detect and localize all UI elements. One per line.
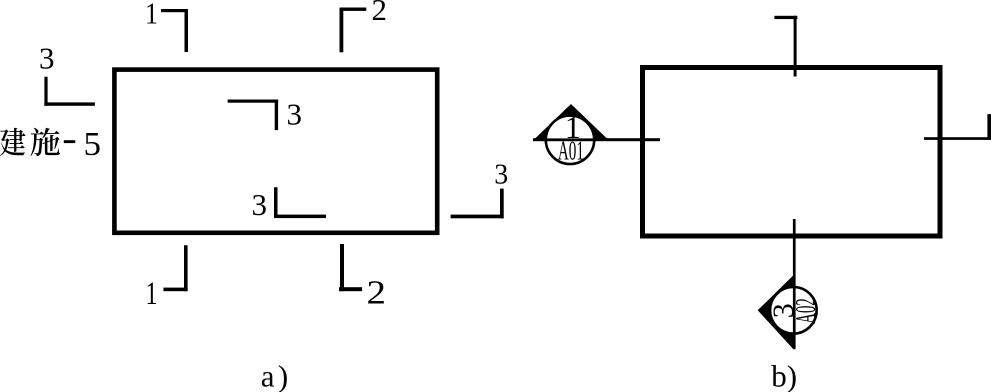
svg-text:1: 1 xyxy=(146,276,158,312)
section mark 3 right: vertical tick xyxy=(500,189,504,219)
top section line b: horizontal tick xyxy=(774,16,797,19)
minus sign of 建施-5 xyxy=(64,140,76,143)
inner detail mark 3 lower: horizontal tick xyxy=(274,215,326,219)
bottom section line (through A02 symbol) xyxy=(793,219,796,276)
svg-text:1: 1 xyxy=(145,0,158,31)
drawing title text 建 xyxy=(0,128,26,156)
section mark 2 bottom: vertical cut line xyxy=(340,244,344,291)
section mark 1 top: horizontal tick xyxy=(161,9,188,12)
section mark 2 top: horizontal tick xyxy=(340,8,367,11)
svg-text:b): b) xyxy=(771,359,797,392)
section symbol A02: direction triangle xyxy=(758,275,794,349)
section symbol A01: index circle xyxy=(546,116,594,164)
inner detail mark 3 upper: horizontal tick xyxy=(228,100,279,103)
section mark 3 left: horizontal cut line xyxy=(44,102,95,105)
section mark 1 bottom: vertical cut line xyxy=(184,245,188,291)
building outline rectangle (plan b) xyxy=(643,68,941,237)
section mark 1 top: vertical cut line xyxy=(185,9,189,52)
inner detail mark 3 lower: vertical line xyxy=(274,187,278,218)
inner detail mark 3 upper: vertical line xyxy=(275,100,278,131)
left section line (through A01 symbol) xyxy=(533,138,660,141)
section mark 2 bottom: horizontal tick xyxy=(339,287,362,291)
svg-text:A02: A02 xyxy=(790,298,822,324)
svg-text:3: 3 xyxy=(252,187,268,222)
right section line: end tick xyxy=(987,114,991,140)
section symbol A01: direction triangle xyxy=(534,104,609,140)
svg-text:3: 3 xyxy=(287,97,303,132)
building outline rectangle (plan a) xyxy=(114,70,437,233)
svg-text:2: 2 xyxy=(372,0,388,27)
svg-text:5: 5 xyxy=(84,126,102,163)
top section line b: vertical cut line xyxy=(794,16,797,77)
drawing title text 施 xyxy=(31,128,61,156)
svg-text:A01: A01 xyxy=(558,135,584,165)
section mark 3 left: vertical tick xyxy=(44,77,47,106)
svg-text:3: 3 xyxy=(39,41,55,76)
section symbol A02: diameter line (vertical) xyxy=(793,276,796,349)
svg-text:2: 2 xyxy=(367,275,387,312)
section mark 3 right: horizontal cut line xyxy=(451,215,504,219)
section symbol A02: index circle xyxy=(770,287,817,334)
right section line xyxy=(924,137,989,140)
svg-text:3: 3 xyxy=(494,160,508,191)
section mark 1 bottom: horizontal tick xyxy=(163,288,187,292)
section mark 2 top: vertical cut line xyxy=(340,8,344,53)
svg-text:a): a) xyxy=(261,359,289,392)
section symbol A01: diameter line xyxy=(545,138,596,141)
